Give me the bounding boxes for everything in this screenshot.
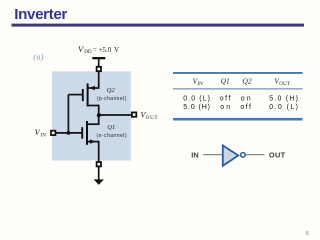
svg-text:on: on: [241, 96, 251, 103]
svg-text:Inverter: Inverter: [14, 6, 67, 23]
svg-text:IN: IN: [41, 134, 47, 139]
svg-text:8: 8: [306, 231, 309, 237]
svg-text:Q1: Q1: [107, 124, 115, 131]
svg-text:Q2: Q2: [242, 77, 251, 86]
svg-text:=: =: [93, 46, 97, 54]
svg-text:(a): (a): [33, 53, 43, 62]
svg-text:DD: DD: [84, 49, 92, 55]
svg-text:IN: IN: [191, 151, 198, 160]
svg-text:0.0 (L): 0.0 (L): [183, 96, 210, 103]
svg-text:IN: IN: [198, 82, 204, 87]
svg-text:OUT: OUT: [269, 151, 286, 160]
svg-text:(p-channel): (p-channel): [97, 96, 127, 102]
svg-text:Q2: Q2: [107, 87, 116, 94]
svg-text:off: off: [220, 96, 231, 103]
svg-text:(n-channel): (n-channel): [97, 133, 127, 139]
svg-text:off: off: [240, 104, 251, 111]
svg-text:on: on: [220, 104, 230, 111]
svg-text:5.0 (H): 5.0 (H): [269, 96, 298, 103]
svg-text:0.0 (L): 0.0 (L): [269, 104, 298, 111]
svg-text:V: V: [114, 45, 120, 54]
svg-text:5.0 (H): 5.0 (H): [183, 104, 210, 111]
svg-text:V: V: [35, 128, 41, 137]
svg-text:Q1: Q1: [221, 77, 230, 86]
svg-text:+5.0: +5.0: [99, 46, 112, 54]
svg-text:OUT: OUT: [279, 82, 290, 87]
svg-text:OUT: OUT: [146, 116, 158, 121]
